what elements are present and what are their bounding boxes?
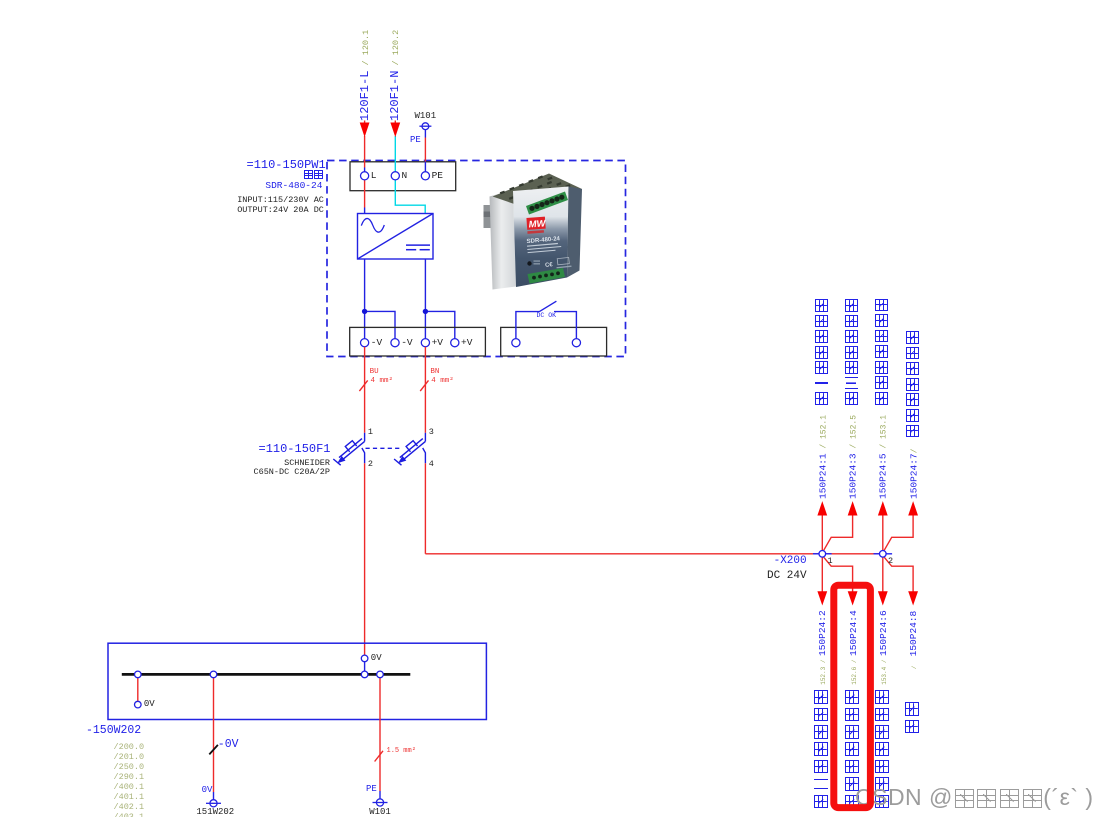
svg-text:MW: MW [528,218,547,230]
svg-text:C€: C€ [545,262,554,269]
